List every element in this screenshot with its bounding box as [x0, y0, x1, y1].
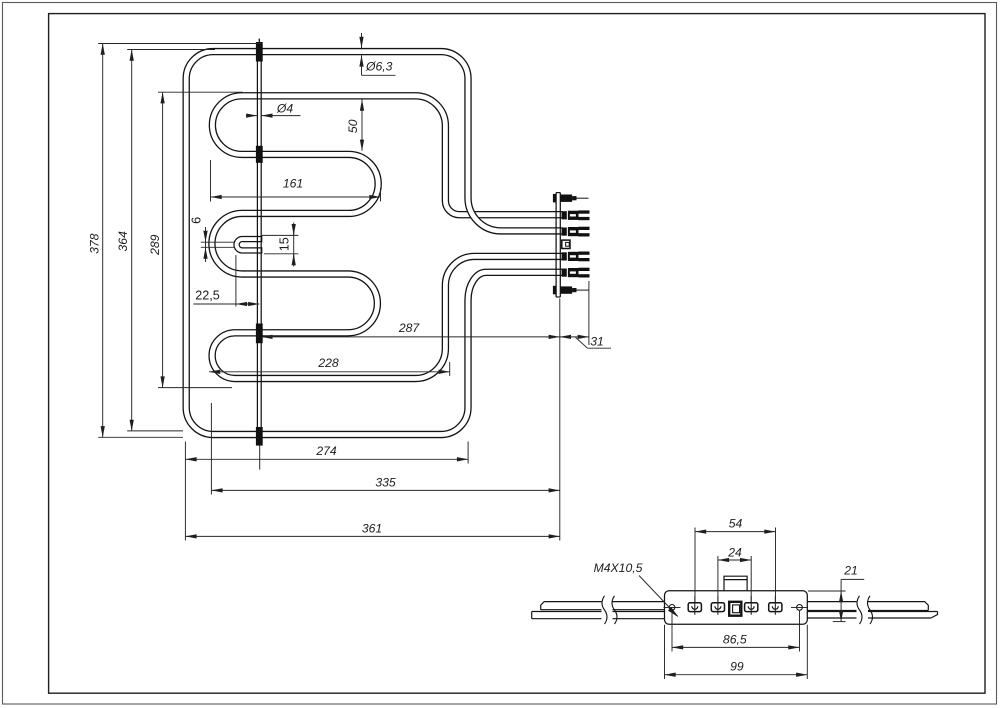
terminal mounting plate bar	[555, 193, 557, 297]
dimension 378	[98, 43, 261, 45]
screw hole right	[797, 605, 803, 611]
plate flange at top bolt	[553, 194, 556, 203]
thermostat square on plate	[562, 240, 570, 248]
side view upper tube right segment	[807, 602, 928, 611]
svg-text:Ø4: Ø4	[276, 101, 293, 115]
dimension 364	[127, 49, 215, 51]
outer heating circuit tube	[186, 52, 562, 435]
svg-text:24: 24	[727, 546, 742, 560]
dimension 22,5	[235, 255, 237, 307]
rod clamp at row 8	[256, 427, 263, 446]
side view terminal 1	[688, 603, 701, 612]
dimension 86,5	[671, 611, 673, 652]
hairpin end caps	[261, 236, 263, 242]
side view mounting plate	[665, 591, 808, 625]
svg-text:335: 335	[375, 476, 396, 490]
dimension 161	[210, 160, 212, 202]
leader M4X10,5	[639, 576, 678, 617]
dimension diameter 6,3	[361, 33, 363, 48]
dimension 287	[261, 336, 560, 338]
spade terminal 1	[562, 211, 567, 219]
spade terminal 2	[562, 228, 567, 236]
svg-text:287: 287	[398, 321, 421, 335]
svg-text:274: 274	[315, 444, 337, 458]
extension line from plate	[559, 299, 561, 541]
support rod lower extension	[259, 446, 261, 470]
svg-text:50: 50	[346, 119, 360, 133]
support rod tip	[258, 39, 260, 45]
inner heating circuit tube	[212, 96, 563, 379]
screw hole left	[669, 605, 675, 611]
svg-text:99: 99	[730, 660, 744, 674]
dimension 24	[717, 556, 719, 603]
dimension 6	[201, 241, 235, 243]
side view thermostat square	[729, 602, 741, 616]
extension line from terminal tips	[588, 281, 590, 345]
side view terminal 3	[745, 603, 758, 612]
svg-text:364: 364	[116, 231, 130, 252]
dimension diameter 4	[247, 115, 258, 117]
dimension 274	[184, 442, 186, 464]
svg-text:Ø6,3: Ø6,3	[365, 59, 393, 73]
side view lower tube right segment	[807, 612, 937, 619]
dimension 99	[664, 625, 666, 679]
svg-text:86,5: 86,5	[723, 633, 747, 647]
support rod	[256, 44, 258, 445]
svg-text:6: 6	[189, 217, 203, 224]
dimension 361	[184, 464, 186, 541]
side view upper tube left segment	[541, 602, 665, 610]
side view lower tube left segment	[532, 612, 665, 619]
svg-text:15: 15	[278, 237, 292, 251]
svg-text:378: 378	[88, 233, 102, 254]
svg-text:22,5: 22,5	[195, 288, 220, 302]
svg-text:21: 21	[843, 563, 858, 577]
dimension 289	[158, 91, 243, 93]
stud bolt top	[561, 195, 573, 202]
dimension 335	[210, 403, 212, 495]
rod clamp at row 3	[256, 146, 263, 163]
stud bolt bottom	[561, 286, 573, 293]
hairpin stub tube	[237, 239, 262, 250]
dimension 21	[808, 590, 846, 592]
spade terminal 3	[562, 252, 567, 260]
svg-text:161: 161	[283, 177, 303, 191]
dimension 50	[361, 100, 363, 151]
svg-text:361: 361	[362, 522, 382, 536]
svg-text:M4X10,5: M4X10,5	[594, 561, 643, 575]
right pipe break	[857, 598, 869, 622]
svg-text:31: 31	[590, 335, 604, 349]
rod clamp at row 1	[256, 42, 263, 62]
bracket tab on plate	[724, 576, 747, 591]
dimension 31 with leader	[560, 336, 589, 338]
side view terminal 4	[769, 603, 782, 612]
spade terminal 4	[562, 269, 567, 277]
rod clamp at row 6	[256, 324, 263, 344]
dimension 228	[449, 362, 451, 376]
svg-text:54: 54	[729, 517, 743, 531]
dimension 15	[261, 234, 299, 236]
svg-text:289: 289	[148, 234, 162, 256]
side view terminal 2	[711, 603, 724, 612]
left pipe break	[602, 598, 613, 622]
plate flange at bottom bolt	[553, 286, 556, 295]
svg-text:228: 228	[317, 356, 339, 370]
dimension 54	[694, 528, 696, 603]
